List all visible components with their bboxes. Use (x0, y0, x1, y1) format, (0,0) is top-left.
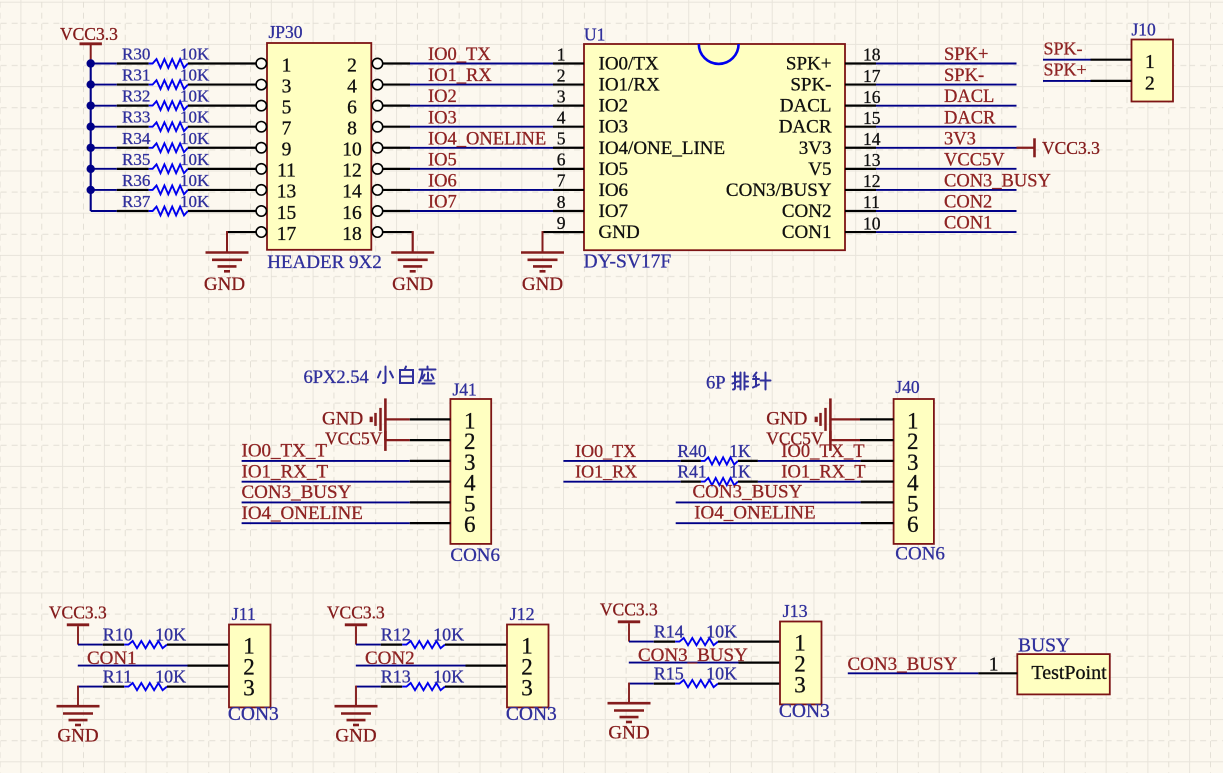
net label CON3_BUSY (J40) (693, 482, 803, 503)
svg-text:IO5: IO5 (428, 150, 457, 170)
svg-text:VCC3.3: VCC3.3 (600, 600, 658, 620)
connector J41 body (450, 399, 491, 544)
net label DACL (944, 87, 994, 107)
svg-text:IO4_ONELINE: IO4_ONELINE (694, 502, 815, 523)
svg-text:DY-SV17F: DY-SV17F (584, 252, 672, 273)
U1 pin 13 (808, 150, 880, 180)
svg-text:IO0_TX: IO0_TX (575, 441, 636, 461)
wire VCC3.3 to R12 (356, 644, 381, 646)
ground GND (below JP30 right) (391, 253, 434, 296)
J41 pin 1 (464, 408, 476, 433)
svg-text:9: 9 (557, 213, 566, 233)
junction (87, 144, 95, 152)
svg-text:IO0/TX: IO0/TX (599, 54, 659, 75)
J41 pin 6 (464, 512, 476, 537)
svg-text:IO0_TX_T: IO0_TX_T (781, 442, 864, 462)
net label IO0_TX (428, 45, 491, 65)
designator J40 (895, 377, 920, 397)
resistor R35 10K (117, 150, 256, 173)
wire GND to J40.1 (832, 418, 894, 420)
svg-text:16: 16 (863, 87, 881, 107)
svg-text:7: 7 (557, 171, 566, 191)
junction (87, 186, 95, 194)
svg-text:10K: 10K (180, 66, 210, 85)
wire IO7 (383, 210, 553, 212)
ground GND (J40 pin1) (766, 398, 830, 440)
power VCC3.3 (J13) (600, 600, 658, 642)
svg-text:GND: GND (57, 726, 98, 747)
ground GND (J41 pin1) (322, 398, 385, 440)
svg-text:IO3: IO3 (599, 117, 629, 138)
svg-text:CON3_BUSY: CON3_BUSY (242, 482, 352, 503)
svg-text:10: 10 (342, 140, 362, 161)
J40 pin 1 (907, 408, 919, 433)
designator J12 (510, 604, 535, 624)
wire CON1 (876, 231, 1017, 233)
svg-text:IO2: IO2 (599, 96, 629, 117)
net label CON3_BUSY (TestPoint) (848, 654, 958, 675)
U1 pin 18 (786, 45, 881, 75)
U1 pin 3 (553, 86, 628, 116)
svg-text:JP30: JP30 (269, 22, 303, 42)
J41 pin 5 (464, 491, 476, 516)
svg-text:10K: 10K (180, 150, 210, 169)
wire CON2 to J12.2 (356, 665, 507, 667)
wire CON3_BUSY (876, 189, 1017, 191)
svg-text:GND: GND (608, 723, 649, 744)
net label IO1_RX_T (242, 461, 329, 482)
net label VCC5V (944, 150, 1005, 170)
svg-text:GND: GND (204, 274, 245, 295)
svg-text:3: 3 (282, 76, 292, 97)
resistor R37 10K (117, 192, 256, 215)
wire SPK- to J10 (1043, 59, 1091, 61)
svg-text:IO7: IO7 (599, 201, 629, 222)
svg-text:SPK-: SPK- (944, 66, 984, 86)
svg-text:V5: V5 (808, 159, 831, 180)
designator J13 (783, 601, 808, 621)
svg-text:10K: 10K (706, 621, 737, 641)
wire SPK- (876, 84, 1017, 86)
wire bus to R33 (91, 126, 117, 128)
wire bus to R31 (91, 84, 117, 86)
connector J11 body (229, 625, 271, 708)
U1 pin 7 (553, 171, 628, 201)
header JP30 HEADER 9X2 body (267, 43, 371, 250)
svg-text:CON3: CON3 (506, 704, 557, 725)
ground GND (J11) (57, 706, 100, 746)
svg-text:3: 3 (794, 673, 806, 698)
wire GND to J41.1 (387, 418, 451, 420)
svg-text:6PX2.54: 6PX2.54 (304, 368, 369, 388)
svg-text:CON1: CON1 (782, 222, 832, 243)
J13 pin 2 (794, 652, 806, 677)
svg-text:DACR: DACR (944, 108, 996, 128)
svg-text:R33: R33 (122, 108, 150, 127)
resistor R12 10K (381, 624, 507, 648)
wire VCC5V to J40.2 (832, 439, 894, 441)
comment HEADER 9X2 (267, 252, 382, 273)
wire GND to R15 (629, 683, 654, 685)
svg-text:IO4/ONE_LINE: IO4/ONE_LINE (599, 138, 726, 159)
J10 pin 1 (1091, 52, 1155, 73)
svg-text:R13: R13 (381, 666, 411, 686)
svg-text:1: 1 (989, 655, 999, 676)
net label IO7 (428, 193, 457, 213)
svg-text:3: 3 (521, 676, 533, 701)
junction (87, 165, 95, 173)
svg-text:DACL: DACL (780, 96, 832, 117)
svg-text:6: 6 (557, 150, 566, 170)
svg-text:VCC5V: VCC5V (325, 428, 383, 448)
svg-text:13: 13 (863, 150, 881, 170)
svg-text:R15: R15 (654, 663, 684, 683)
wire GND stem (J13) (628, 683, 630, 702)
comment 排针 (733, 373, 771, 390)
svg-text:11: 11 (277, 161, 296, 182)
ground GND (below JP30 left) (204, 253, 249, 296)
svg-text:10K: 10K (433, 624, 464, 644)
junction (87, 59, 95, 67)
svg-text:CON6: CON6 (450, 545, 500, 566)
svg-text:CON3_BUSY: CON3_BUSY (848, 654, 958, 675)
wire GND to R11 (78, 686, 103, 688)
J40 pin 6 (907, 512, 919, 537)
junction (87, 101, 95, 109)
svg-text:18: 18 (342, 224, 362, 245)
connector J12 body (507, 625, 549, 708)
svg-text:3: 3 (243, 676, 255, 701)
J41 pin 2 (464, 429, 476, 454)
svg-text:GND: GND (599, 222, 640, 243)
svg-text:IO0_TX_T: IO0_TX_T (242, 441, 328, 462)
J11 pin 3 (243, 676, 255, 701)
JP30 pin 17 (256, 224, 296, 245)
svg-text:8: 8 (557, 192, 566, 212)
wire GND stem (J12) (355, 686, 357, 705)
svg-text:10K: 10K (155, 624, 186, 644)
net label CON3_BUSY (944, 172, 1051, 192)
wire bus to R36 (91, 189, 117, 191)
power VCC5V (J41) (325, 428, 385, 451)
designator J41 (453, 380, 477, 400)
U1 pin 6 (553, 150, 628, 180)
net label CON2 (365, 648, 415, 669)
wire VCC3.3 to R10 (78, 644, 103, 646)
resistor R40 1K (677, 441, 758, 465)
net label IO5 (428, 150, 457, 170)
comment 6P (title) (706, 374, 726, 394)
JP30 pin 11 (256, 161, 296, 182)
junction (87, 123, 95, 131)
JP30 pin 7 (256, 119, 292, 140)
net label IO1_RX (428, 66, 492, 86)
svg-text:8: 8 (347, 119, 357, 140)
net label CON2 (944, 193, 992, 213)
net label IO0_TX_T (242, 441, 328, 462)
svg-text:1K: 1K (729, 462, 751, 482)
svg-text:VCC5V: VCC5V (944, 150, 1005, 170)
resistor R33 10K (117, 108, 256, 131)
svg-text:SPK+: SPK+ (786, 54, 832, 75)
power VCC3.3 (top left) (60, 24, 118, 60)
J10 pin 2 (1091, 73, 1155, 94)
svg-text:R14: R14 (654, 621, 684, 641)
wire IO0_TX (383, 62, 553, 64)
svg-text:IO0_TX: IO0_TX (428, 45, 491, 65)
svg-text:J12: J12 (510, 604, 535, 624)
J41 pin 3 (464, 450, 476, 475)
wire CON1 to J11.2 (78, 665, 229, 667)
svg-text:6: 6 (464, 512, 476, 537)
svg-text:17: 17 (277, 224, 297, 245)
wire bus to R30 (91, 63, 117, 65)
U1 pin 8 (553, 192, 628, 222)
svg-text:1K: 1K (729, 441, 751, 461)
svg-text:1: 1 (557, 44, 566, 64)
svg-text:R31: R31 (122, 66, 150, 85)
svg-text:IO7: IO7 (428, 193, 457, 213)
JP30 pin 6 (347, 97, 383, 118)
svg-text:R34: R34 (122, 129, 151, 148)
svg-text:7: 7 (282, 119, 292, 140)
svg-text:10K: 10K (433, 666, 464, 686)
net label IO0_TX (J40) (575, 441, 636, 461)
wire CON3_BUSY to TestPoint (848, 672, 1018, 674)
svg-text:GND: GND (522, 274, 563, 295)
test point BUSY label (1018, 635, 1070, 656)
comment 小白座 (378, 367, 436, 384)
power VCC3.3 (J11) (49, 603, 107, 645)
svg-text:VCC3.3: VCC3.3 (1042, 138, 1100, 158)
J40 pin 4 (907, 471, 919, 496)
svg-text:R11: R11 (103, 666, 132, 686)
wire bus to R32 (91, 105, 117, 107)
wire VCC5V (876, 168, 1017, 170)
wire U1.9 to GND (543, 231, 585, 252)
svg-text:VCC3.3: VCC3.3 (49, 603, 107, 623)
svg-text:CON3: CON3 (228, 704, 279, 725)
J13 pin 1 (794, 631, 806, 656)
svg-text:CON3_BUSY: CON3_BUSY (693, 482, 803, 503)
wire IO0_TX (to R40) (563, 460, 680, 462)
svg-text:5: 5 (557, 129, 566, 149)
wire IO1_RX_T to J40.4 (758, 481, 894, 483)
designator J10 (1132, 20, 1157, 40)
svg-text:IO1/RX: IO1/RX (599, 75, 661, 96)
comment CON3 (J12) (506, 704, 557, 725)
svg-text:IO1_RX: IO1_RX (575, 462, 637, 482)
svg-text:IO5: IO5 (599, 159, 629, 180)
U1 pin 5 (553, 129, 725, 159)
U1 pin 17 (790, 66, 880, 96)
svg-text:6P: 6P (706, 374, 726, 394)
U1 pin 16 (780, 87, 881, 117)
net label CON3_BUSY (638, 645, 748, 666)
wire CON3_BUSY to J40.5 (676, 501, 894, 503)
wire bus to R37 (91, 210, 117, 212)
JP30 pin 10 (342, 140, 382, 161)
U1 pin 14 (799, 129, 881, 159)
net label SPK+ (944, 45, 988, 65)
svg-text:IO3: IO3 (428, 108, 457, 128)
svg-text:GND: GND (392, 274, 433, 295)
comment CON6 (J41) (450, 545, 500, 566)
J12 pin 3 (521, 676, 533, 701)
J12 pin 2 (521, 655, 533, 680)
JP30 pin 5 (256, 97, 291, 118)
wire GND stem (J11) (77, 686, 79, 705)
JP30 pin 8 (347, 119, 383, 140)
wire IO4_ONELINE to J40.6 (676, 522, 894, 524)
svg-text:CON6: CON6 (895, 544, 945, 565)
svg-text:U1: U1 (584, 25, 605, 45)
net label CON1 (87, 648, 137, 669)
wire CON3_BUSY to J41.5 (242, 501, 451, 503)
svg-text:10K: 10K (180, 171, 210, 190)
net label DACR (944, 108, 996, 128)
wire SPK+ to J10 (1043, 80, 1091, 82)
wire VCC3.3 bus (90, 60, 92, 211)
net label SPK- (944, 66, 984, 86)
svg-text:J11: J11 (232, 604, 256, 624)
svg-text:3V3: 3V3 (799, 138, 832, 159)
svg-text:10: 10 (863, 213, 881, 233)
wire DACR (876, 126, 1017, 128)
svg-text:10K: 10K (706, 663, 737, 683)
svg-text:R36: R36 (122, 171, 150, 190)
wire IO0_TX_T to J41.3 (242, 460, 451, 462)
net label SPK+ (1044, 60, 1087, 80)
wire bus to R35 (91, 168, 117, 170)
wire VCC3.3 to R14 (629, 641, 654, 643)
U1 pin 9 (553, 213, 640, 243)
J40 pin 5 (907, 491, 919, 516)
ground GND (J12) (335, 706, 378, 746)
svg-text:1: 1 (1145, 52, 1155, 73)
wire GND to R13 (356, 686, 381, 688)
JP30 pin 2 (347, 55, 383, 76)
svg-text:IO4_ONELINE: IO4_ONELINE (242, 503, 363, 524)
svg-text:CON2: CON2 (944, 193, 992, 213)
wire bus to R34 (91, 147, 117, 149)
wire IO1_RX_T to J41.4 (242, 481, 451, 483)
JP30 pin 14 (342, 182, 382, 203)
svg-text:SPK-: SPK- (1044, 39, 1083, 59)
power VCC5V (J40) (766, 428, 830, 451)
connector J40 body (894, 399, 934, 544)
svg-text:10K: 10K (155, 666, 186, 686)
wire SPK+ (876, 63, 1017, 65)
svg-text:DACL: DACL (944, 87, 994, 107)
svg-text:IO6: IO6 (599, 180, 629, 201)
JP30 pin 9 (256, 140, 291, 161)
svg-text:GND: GND (335, 726, 376, 747)
svg-text:R30: R30 (122, 45, 150, 64)
JP30 pin 13 (256, 182, 296, 203)
J13 pin 3 (794, 673, 806, 698)
svg-text:CON1: CON1 (944, 214, 992, 234)
svg-text:SPK-: SPK- (790, 75, 831, 96)
svg-text:15: 15 (863, 108, 881, 128)
comment CON3 (J13) (779, 701, 830, 722)
svg-text:4: 4 (557, 108, 566, 128)
svg-text:12: 12 (863, 171, 881, 191)
svg-text:10K: 10K (180, 45, 210, 64)
svg-text:6: 6 (907, 512, 919, 537)
svg-text:14: 14 (342, 182, 362, 203)
JP30 pin 18 (342, 224, 382, 245)
svg-text:11: 11 (863, 192, 880, 212)
svg-text:17: 17 (863, 66, 881, 86)
U1 pin 11 (782, 192, 880, 222)
JP30 pin 15 (256, 203, 296, 224)
wire IO0_TX_T to J40.3 (758, 460, 894, 462)
JP30 pin 16 (342, 203, 382, 224)
U1 pin 12 (726, 171, 881, 201)
svg-text:CON2: CON2 (782, 201, 832, 222)
J12 pin 1 (521, 634, 533, 659)
svg-text:IO1_RX_T: IO1_RX_T (242, 461, 329, 482)
JP30 pin 12 (342, 161, 382, 182)
svg-text:2: 2 (557, 65, 566, 85)
svg-text:SPK+: SPK+ (944, 45, 988, 65)
svg-text:DACR: DACR (779, 117, 832, 138)
svg-text:CON3: CON3 (779, 701, 830, 722)
svg-text:GND: GND (322, 408, 363, 429)
ground GND (below U1) (521, 253, 564, 296)
wire JP30.17 to GND (227, 231, 256, 252)
svg-text:CON3_BUSY: CON3_BUSY (944, 172, 1051, 192)
svg-text:R41: R41 (677, 462, 706, 482)
svg-text:R12: R12 (381, 624, 411, 644)
connector J13 body (780, 622, 822, 705)
svg-text:VCC3.3: VCC3.3 (327, 603, 385, 623)
wire 3V3 (876, 147, 1017, 149)
svg-text:10K: 10K (180, 87, 210, 106)
J11 pin 2 (243, 655, 255, 680)
JP30 pin 4 (347, 76, 383, 97)
svg-text:IO6: IO6 (428, 172, 457, 192)
net label IO6 (428, 172, 457, 192)
svg-text:J13: J13 (783, 601, 808, 621)
power VCC3.3 (right of U1) (1017, 138, 1101, 158)
svg-text:12: 12 (342, 161, 362, 182)
U1 pin 1 (553, 44, 659, 74)
svg-text:BUSY: BUSY (1018, 635, 1070, 656)
resistor R10 10K (103, 624, 229, 648)
svg-text:J41: J41 (453, 380, 477, 400)
svg-text:CON3/BUSY: CON3/BUSY (726, 180, 832, 201)
J40 pin 3 (907, 450, 919, 475)
svg-text:15: 15 (277, 203, 297, 224)
svg-text:9: 9 (282, 140, 292, 161)
svg-text:IO4_ONELINE: IO4_ONELINE (428, 129, 546, 149)
svg-text:IO1_RX: IO1_RX (428, 66, 492, 86)
svg-text:GND: GND (766, 408, 807, 429)
op-amp U1 body (584, 44, 845, 250)
net label IO4_ONELINE (J40) (694, 502, 815, 523)
designator J11 (232, 604, 256, 624)
JP30 pin 3 (256, 76, 291, 97)
resistor R11 10K (103, 666, 229, 690)
U1 pin 10 (782, 213, 881, 243)
resistor R34 10K (117, 129, 256, 152)
U1 pin 4 (553, 108, 628, 138)
wire IO6 (383, 189, 553, 191)
resistor R36 10K (117, 171, 256, 194)
wire IO5 (383, 168, 553, 170)
